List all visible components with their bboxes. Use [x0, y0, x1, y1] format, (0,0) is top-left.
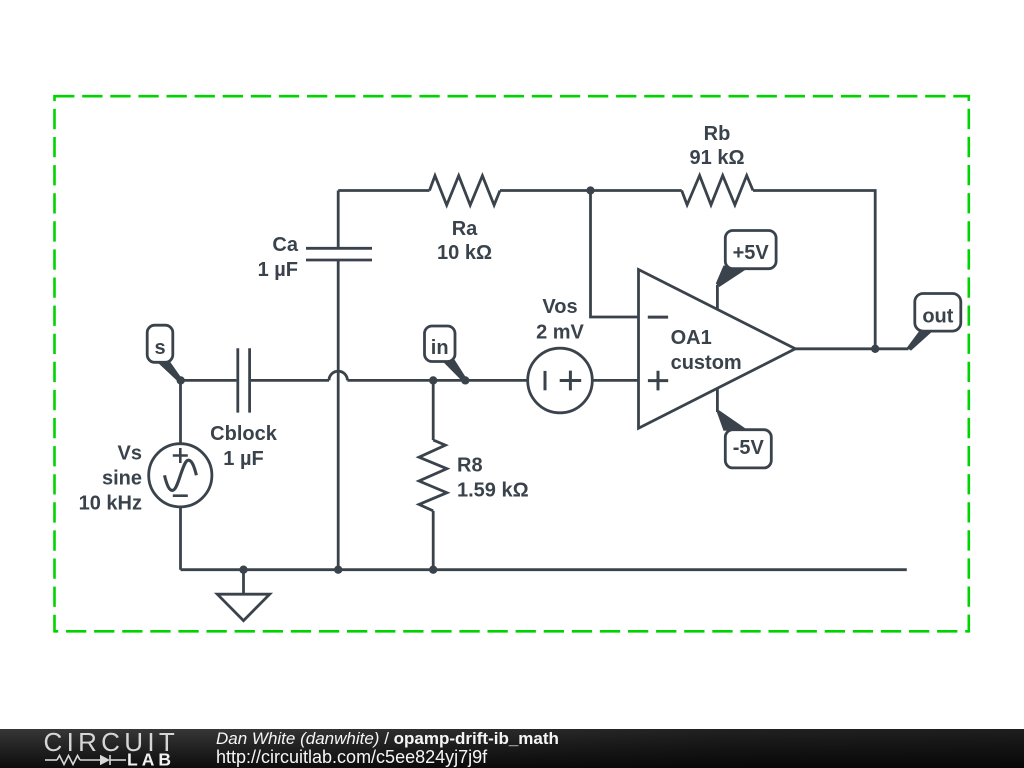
svg-text:custom: custom — [671, 352, 742, 374]
svg-text:Vs: Vs — [118, 443, 142, 465]
svg-text:R8: R8 — [457, 455, 483, 477]
svg-text:1 µF: 1 µF — [223, 448, 263, 470]
svg-text:1.59 kΩ: 1.59 kΩ — [457, 480, 529, 502]
svg-text:LAB: LAB — [127, 750, 175, 768]
svg-text:s: s — [154, 337, 165, 359]
svg-text:10 kΩ: 10 kΩ — [437, 242, 492, 264]
svg-text:Ra: Ra — [452, 218, 478, 240]
svg-text:2 mV: 2 mV — [536, 322, 584, 344]
svg-text:sine: sine — [102, 468, 142, 490]
svg-text:OA1: OA1 — [671, 327, 712, 349]
svg-text:10 kHz: 10 kHz — [79, 493, 142, 515]
svg-text:out: out — [922, 306, 953, 328]
svg-text:-5V: -5V — [733, 437, 765, 459]
svg-text:1 µF: 1 µF — [258, 259, 298, 281]
svg-text:Rb: Rb — [704, 123, 731, 145]
svg-text:+5V: +5V — [733, 242, 770, 264]
svg-text:91 kΩ: 91 kΩ — [690, 147, 745, 169]
svg-text:Vos: Vos — [542, 296, 577, 318]
svg-text:Cblock: Cblock — [210, 423, 278, 445]
svg-text:Ca: Ca — [272, 234, 298, 256]
svg-text:in: in — [431, 337, 449, 359]
svg-text:http://circuitlab.com/c5ee824y: http://circuitlab.com/c5ee824yj7j9f — [216, 747, 488, 767]
svg-text:Dan White (danwhite) / opamp-d: Dan White (danwhite) / opamp-drift-ib_ma… — [216, 729, 559, 748]
